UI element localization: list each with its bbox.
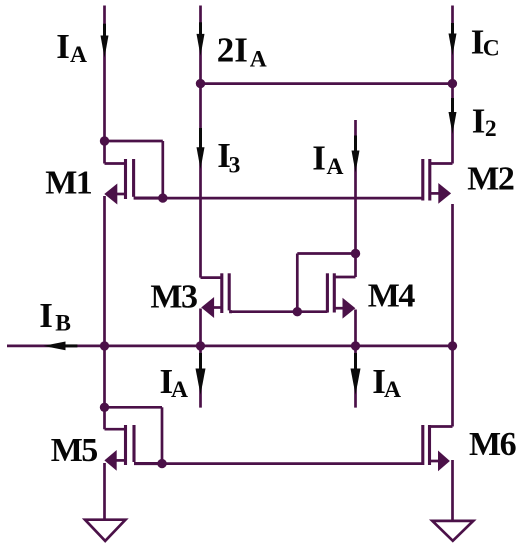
svg-text:M3: M3 bbox=[150, 278, 197, 315]
svg-text:A: A bbox=[327, 154, 344, 180]
svg-text:M2: M2 bbox=[467, 160, 514, 197]
svg-text:A: A bbox=[384, 377, 401, 403]
svg-text:I: I bbox=[56, 27, 70, 66]
svg-text:2: 2 bbox=[485, 116, 497, 142]
svg-text:I: I bbox=[472, 102, 486, 141]
svg-text:M5: M5 bbox=[51, 432, 98, 469]
svg-text:B: B bbox=[55, 311, 71, 337]
svg-text:3: 3 bbox=[229, 153, 241, 179]
svg-text:A: A bbox=[171, 377, 188, 403]
svg-text:I: I bbox=[312, 139, 326, 178]
svg-text:2I: 2I bbox=[217, 31, 248, 70]
svg-text:M6: M6 bbox=[469, 426, 516, 463]
svg-text:I: I bbox=[39, 296, 53, 335]
svg-text:C: C bbox=[483, 36, 500, 62]
svg-text:A: A bbox=[250, 47, 267, 73]
svg-text:M4: M4 bbox=[368, 278, 416, 315]
svg-text:M1: M1 bbox=[45, 164, 92, 201]
svg-text:A: A bbox=[70, 42, 87, 68]
